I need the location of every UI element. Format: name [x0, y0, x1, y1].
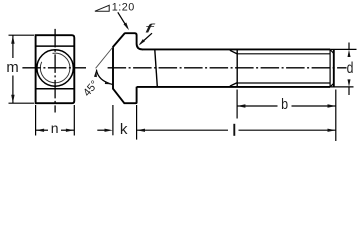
b dimension extension line (thread start): [236, 90, 238, 119]
end chamfer diagonal bottom: [330, 83, 334, 87]
main centerline of side view: [108, 67, 347, 69]
b dimension line: [237, 105, 277, 107]
shank circle (d): [37, 50, 73, 86]
n dimension extension line left: [35, 105, 37, 136]
svg-text:b: b: [281, 97, 288, 113]
b dimension arrows: [237, 104, 245, 107]
head profile lower part: 45deg chamfer, bottom face, right bearing face: [113, 87, 137, 103]
k dimension arrow tail (outside): [97, 129, 104, 131]
head square outline: [36, 35, 75, 103]
thread runout diagonal bottom: [230, 83, 237, 87]
horizontal centerline of head view: [22, 67, 86, 69]
thread minor diameter line bottom: [237, 82, 330, 84]
m dimension arrows: [11, 35, 14, 43]
45deg arc arrowheads: [94, 70, 97, 78]
fillet f leader arrowhead: [139, 39, 145, 45]
shank top line: [142, 48, 330, 50]
n dimension line: [36, 129, 48, 131]
n dimension extension line right: [73, 105, 75, 136]
1:20 leader arrowhead: [124, 23, 130, 31]
shank bottom line: [137, 86, 331, 88]
head upper edge line (chamfer projection): [36, 45, 75, 47]
1:20 leader line: [118, 12, 128, 28]
svg-text:k: k: [120, 121, 128, 138]
m dimension line: [12, 35, 14, 58]
thread runout diagonal top: [230, 50, 237, 54]
d dimension line below: [348, 87, 350, 95]
svg-text:d: d: [347, 60, 354, 77]
d extension line bottom: [330, 86, 353, 88]
svg-text:1:20: 1:20: [112, 2, 135, 14]
vertical centerline of head view: [54, 29, 56, 113]
under-head fillet tangent line across shank: [155, 50, 158, 87]
45deg chamfer extension line: [96, 47, 113, 68]
chamfer circle (broken thin circle): [40, 53, 70, 83]
k dimension arrow (outside left): [105, 129, 113, 132]
thread minor diameter line top: [237, 53, 330, 55]
l dimension line: [137, 129, 228, 131]
m dimension extension line top: [9, 34, 35, 36]
n dimension arrows: [36, 129, 44, 132]
head lower edge line (chamfer projection): [36, 88, 75, 90]
end chamfer edge line: [329, 50, 331, 87]
l dimension arrows: [137, 129, 145, 132]
fillet leader line: [140, 33, 152, 44]
k dimension extension line right: [136, 105, 138, 140]
k dimension extension line left: [112, 105, 114, 135]
svg-text:m: m: [6, 60, 18, 76]
m dimension extension line bottom: [9, 102, 35, 104]
end chamfer diagonal top: [330, 50, 334, 54]
d dimension arrows: [348, 50, 351, 58]
label l: [233, 124, 235, 136]
thread start line: [236, 50, 238, 87]
taper slope symbol triangle: [95, 5, 109, 11]
head profile upper part with 45deg chamfer, nose top face and fillet into shank: [113, 33, 143, 89]
svg-text:n: n: [51, 120, 59, 136]
d extension line top (major dia extended): [330, 48, 356, 50]
45deg dimension arc: [96, 70, 112, 85]
end extension line (shared by b and l): [335, 90, 337, 142]
end face of bolt: [333, 50, 335, 87]
d dimension line above: [348, 43, 350, 50]
